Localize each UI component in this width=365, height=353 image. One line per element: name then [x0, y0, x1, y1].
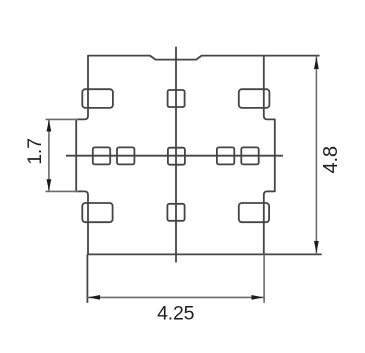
pad middle-center: [168, 148, 185, 165]
arrow dim 1.7 down: [47, 179, 52, 191]
label 4.8: [320, 146, 342, 173]
arrow dim 4.8 down: [314, 241, 319, 253]
arrow dim 4.25 left: [88, 295, 100, 300]
pad middle-left-outer: [93, 147, 110, 164]
pad bottom-center: [167, 204, 184, 221]
pad bottom-right: [239, 203, 269, 222]
dim 4.25 dimension line: [87, 296, 264, 298]
vertical centerline: [175, 47, 177, 263]
pad top-right: [239, 89, 270, 108]
horizontal centerline: [66, 155, 283, 157]
arrow dim 4.8 up: [314, 57, 319, 69]
pad middle-right-outer: [241, 147, 258, 164]
left edge extension toward 4.25 dim: [86, 254, 88, 303]
dim 4.25 extension line right: [263, 254, 265, 303]
dim 1.7 extension line top: [46, 118, 79, 120]
dim 4.8 dimension line: [315, 56, 317, 255]
pad bottom-left: [82, 203, 112, 222]
svg-text:1.7: 1.7: [24, 138, 46, 165]
dim 1.7 dimension line: [48, 119, 50, 191]
svg-text:4.25: 4.25: [157, 302, 195, 324]
arrow dim 1.7 up: [47, 120, 52, 132]
svg-text:4.8: 4.8: [320, 146, 342, 173]
bottom edge extension toward 4.8 dim: [264, 253, 322, 255]
dim 1.7 extension line bottom: [46, 190, 79, 192]
label 1.7: [24, 138, 46, 165]
pad top-left: [82, 89, 113, 108]
pad middle-left-inner: [117, 147, 134, 164]
arrow dim 4.25 right: [252, 295, 264, 300]
pad top-center: [168, 90, 185, 107]
body outline: [76, 56, 275, 255]
pad middle-right-inner: [217, 147, 234, 164]
top edge extension toward 4.8 dim: [264, 55, 320, 57]
